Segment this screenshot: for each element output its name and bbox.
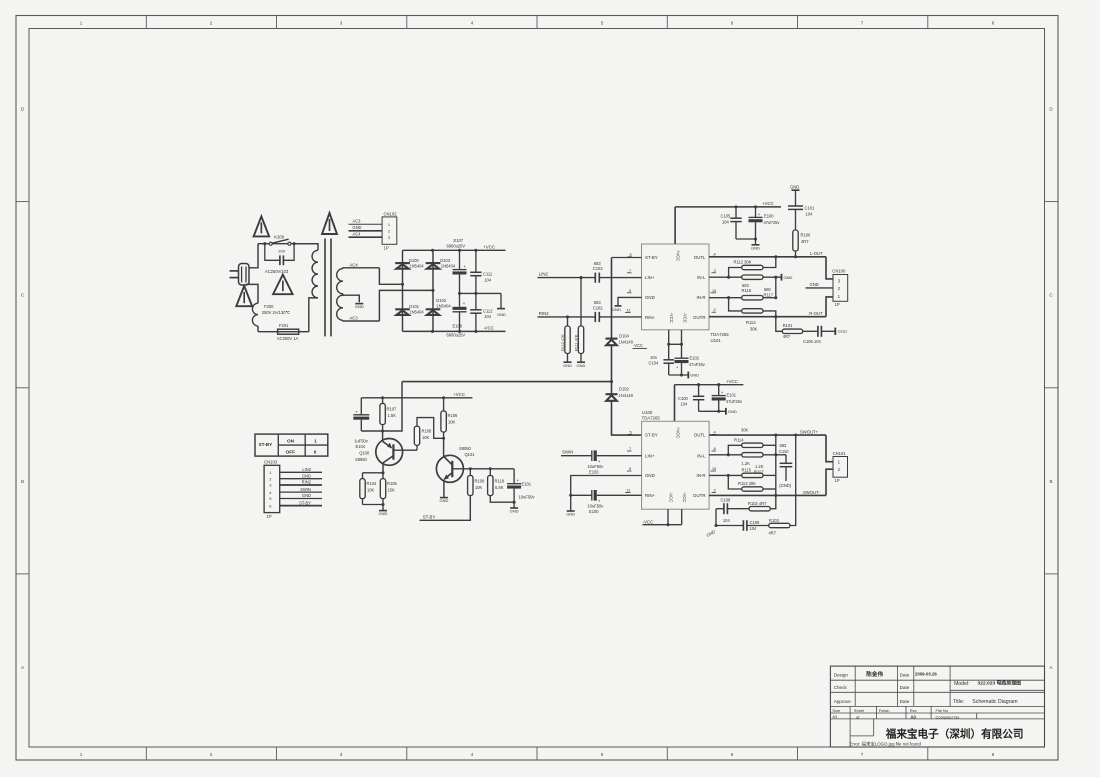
- svg-text:D: D: [1049, 107, 1053, 112]
- svg-text:GND: GND: [379, 511, 388, 516]
- ground of Q101 emitter: [439, 498, 448, 504]
- warning triangle above transformer: [322, 213, 337, 234]
- svg-text:2: 2: [838, 467, 841, 472]
- svg-text:5: 5: [601, 752, 604, 757]
- resistor R109 10K: [420, 469, 486, 521]
- svg-text:1: 1: [314, 439, 317, 444]
- warning triangle mid: [273, 275, 293, 295]
- svg-text:5: 5: [630, 252, 632, 257]
- svg-text:F200: F200: [264, 304, 274, 309]
- svg-text:U101: U101: [711, 338, 722, 343]
- svg-text:9: 9: [629, 288, 631, 293]
- svg-text:S8550: S8550: [355, 457, 368, 462]
- svg-text:3: 3: [714, 268, 716, 273]
- svg-text:104: 104: [484, 277, 492, 282]
- wire C104 E102 to ground: [669, 372, 700, 379]
- svg-text:4: 4: [714, 429, 717, 434]
- transformer T1 core: [325, 239, 331, 337]
- svg-text:1.5K: 1.5K: [388, 413, 397, 418]
- svg-text:GND: GND: [784, 275, 793, 280]
- svg-text:5: 5: [601, 21, 604, 26]
- svg-text:GND: GND: [810, 282, 819, 287]
- svg-text:104: 104: [750, 526, 758, 531]
- svg-text:Design: Design: [834, 672, 849, 677]
- svg-text:47uF25v: 47uF25v: [726, 399, 743, 404]
- ground of C106: [835, 328, 847, 335]
- ground of U100 input: [566, 511, 575, 517]
- svg-text:SWIN: SWIN: [300, 487, 311, 492]
- wire U100 feedback column: [775, 435, 777, 495]
- resistor R103 4R7: [769, 435, 796, 535]
- wire standby +VCC rail: [361, 396, 472, 399]
- wire U101 +VCC feed: [675, 205, 781, 244]
- wire AC3 to bridge: [379, 289, 434, 321]
- wire plug to switch rail: [249, 244, 258, 268]
- wire C108 to ground: [714, 509, 717, 527]
- logo error note: [849, 741, 921, 748]
- svg-text:GND: GND: [690, 373, 699, 378]
- svg-text:D101: D101: [409, 304, 420, 309]
- svg-text:Date: Date: [900, 672, 910, 677]
- svg-text:+VCC: +VCC: [676, 427, 681, 438]
- svg-text:GND: GND: [751, 245, 760, 250]
- wire U101 gain tap column: [774, 277, 777, 299]
- svg-text:GND: GND: [497, 312, 506, 317]
- svg-text:ST-BY: ST-BY: [645, 255, 658, 260]
- resistor R116 series IN-L: [709, 275, 781, 293]
- capacitor E102 47uF25v: [675, 344, 706, 375]
- svg-text:10K: 10K: [422, 435, 430, 440]
- svg-text:ST-BY: ST-BY: [259, 442, 274, 447]
- svg-text:R117: R117: [754, 470, 764, 475]
- ground of Q100 load: [379, 511, 388, 517]
- company name 福来宝电子（深圳）有限公司: [885, 728, 1024, 741]
- net label -VCC: [483, 326, 494, 331]
- svg-text:15K: 15K: [388, 487, 396, 492]
- svg-text:Error: 福来宝LOGO.jpg file not fo: Error: 福来宝LOGO.jpg file not found: [849, 741, 921, 748]
- resistor R113b 30K: [727, 474, 776, 491]
- diode D103 1N5404: [426, 258, 456, 269]
- svg-text:4R7: 4R7: [801, 239, 809, 244]
- svg-text:GND: GND: [302, 493, 311, 498]
- resistor R104 10K: [360, 479, 377, 499]
- svg-text:C110: C110: [779, 449, 789, 454]
- svg-text:10: 10: [712, 466, 717, 471]
- capacitor E101a 47uF25v: [712, 385, 743, 412]
- svg-text:IN-L: IN-L: [697, 275, 706, 280]
- wire plug to fuse: [246, 284, 258, 303]
- svg-text:2009-03.26: 2009-03.26: [915, 671, 937, 676]
- svg-text:AC3: AC3: [352, 218, 361, 223]
- svg-text:F201: F201: [279, 323, 289, 328]
- svg-text:250V 2A/130℃: 250V 2A/130℃: [262, 310, 291, 315]
- resistor R114 30K: [727, 428, 776, 457]
- wire D104 to standby node: [610, 345, 613, 383]
- wire SWOUT- to CN101 pin2: [826, 469, 833, 495]
- ground of filter bus: [497, 293, 506, 317]
- transformer T1 secondary upper: [337, 262, 380, 293]
- wire mains top rail: [258, 243, 318, 245]
- svg-text:E100: E100: [589, 509, 599, 514]
- diode D102b 1N4148: [606, 382, 634, 401]
- net label +VCC top: [762, 201, 774, 206]
- svg-text:104: 104: [806, 211, 814, 216]
- capacitor C104 104: [649, 344, 674, 375]
- diode D100 1N5404: [395, 258, 424, 269]
- svg-text:陈金伟: 陈金伟: [866, 670, 883, 678]
- svg-text:K200: K200: [274, 235, 284, 240]
- svg-text:LIN+: LIN+: [645, 453, 655, 458]
- svg-text:GND: GND: [355, 304, 364, 309]
- svg-text:1: 1: [838, 294, 841, 299]
- svg-text:+VCC: +VCC: [676, 250, 681, 261]
- svg-text:-VCC: -VCC: [669, 313, 674, 323]
- svg-text:104: 104: [722, 219, 730, 224]
- svg-text:-VCC: -VCC: [633, 343, 643, 348]
- svg-text:SWOUT-: SWOUT-: [803, 490, 820, 495]
- wire bridge middle column: [432, 250, 434, 331]
- svg-text:7: 7: [629, 268, 631, 273]
- wire U101 -VCC pins: [667, 330, 683, 346]
- svg-text:OUTR: OUTR: [693, 493, 705, 498]
- svg-text:2: 2: [269, 476, 272, 481]
- svg-text:1N5404: 1N5404: [436, 303, 451, 308]
- svg-text:R113: R113: [746, 320, 756, 325]
- resistor R100 4R7: [793, 230, 811, 257]
- capacitor C110 683: [776, 443, 793, 488]
- svg-text:IN-L: IN-L: [697, 453, 706, 458]
- svg-text:+: +: [355, 409, 358, 414]
- svg-text:+VCC: +VCC: [726, 379, 738, 384]
- svg-text:1N5404: 1N5404: [409, 309, 424, 314]
- svg-text:7: 7: [629, 446, 631, 451]
- svg-text:3: 3: [340, 752, 343, 757]
- AC plug P1: [230, 264, 250, 286]
- svg-text:2: 2: [838, 286, 841, 291]
- connector CN100: [832, 268, 847, 307]
- svg-text:2: 2: [210, 752, 213, 757]
- svg-text:GND: GND: [838, 329, 847, 334]
- capacitor C101 104: [788, 190, 815, 230]
- capacitor E103 10uF50v: [587, 450, 604, 474]
- svg-text:CN101: CN101: [833, 451, 847, 456]
- svg-text:C102: C102: [593, 305, 604, 310]
- capacitor E104 1uF50v: [353, 398, 369, 449]
- frame row letters A-D: [21, 107, 1054, 671]
- svg-text:+VCC: +VCC: [483, 244, 495, 249]
- svg-text:Rev: Rev: [910, 708, 917, 713]
- svg-text:8: 8: [714, 446, 716, 451]
- wire standby node to transistor circuit: [402, 381, 612, 383]
- svg-text:C101: C101: [805, 206, 816, 211]
- svg-text:RIN+: RIN+: [645, 315, 656, 320]
- svg-text:E103: E103: [589, 470, 599, 475]
- fuse F201: [258, 323, 299, 341]
- svg-text:3: 3: [838, 278, 841, 283]
- wire AC4 to CN102 pin3: [349, 231, 383, 237]
- svg-text:LIN2: LIN2: [302, 467, 311, 472]
- svg-text:1N5404: 1N5404: [409, 263, 424, 268]
- svg-text:Computer No: Computer No: [936, 714, 961, 719]
- svg-text:680: 680: [764, 287, 772, 292]
- svg-text:3: 3: [388, 235, 390, 240]
- svg-text:6: 6: [269, 503, 272, 508]
- net label LIN2: [539, 272, 549, 277]
- wire C103 to U101 pin7: [599, 277, 641, 279]
- svg-text:11: 11: [627, 488, 631, 493]
- svg-text:1: 1: [388, 222, 390, 227]
- svg-text:R113 30K: R113 30K: [738, 481, 756, 486]
- svg-text:R111 47K: R111 47K: [575, 334, 579, 351]
- svg-text:+VCC: +VCC: [762, 201, 774, 206]
- svg-text:LIN2: LIN2: [539, 272, 549, 277]
- svg-text:+VCC: +VCC: [453, 392, 465, 397]
- svg-text:TDA7265: TDA7265: [711, 332, 730, 337]
- svg-text:GND: GND: [728, 409, 737, 414]
- svg-text:OUTR: OUTR: [693, 315, 705, 320]
- warning triangle near switch: [254, 216, 270, 236]
- capacitor C109 104: [716, 520, 769, 531]
- svg-text:OUTL: OUTL: [694, 255, 706, 260]
- resistor R106 10K: [441, 398, 458, 439]
- svg-text:GND: GND: [510, 509, 519, 514]
- svg-text:1.2K: 1.2K: [742, 461, 751, 466]
- svg-text:Sheet: Sheet: [854, 708, 865, 713]
- op-amp U101 TDA7265 body: [642, 244, 730, 343]
- svg-text:C105: C105: [721, 214, 732, 219]
- svg-text:10K: 10K: [367, 487, 375, 492]
- svg-text:9: 9: [629, 466, 631, 471]
- capacitor C102 683: [593, 300, 604, 322]
- frame row tick marks: [16, 202, 1058, 574]
- warning triangle below plug: [236, 286, 252, 306]
- svg-text:CN103: CN103: [264, 460, 278, 465]
- svg-text:D104: D104: [619, 333, 630, 338]
- net label +VCC standby: [453, 392, 465, 397]
- svg-text:AC4: AC4: [352, 231, 361, 236]
- svg-text:D: D: [21, 107, 25, 112]
- svg-text:2: 2: [210, 21, 213, 26]
- svg-text:U100: U100: [642, 410, 653, 415]
- svg-text:-VCC: -VCC: [682, 492, 687, 502]
- capacitor E108 6800u25V: [447, 293, 467, 337]
- wire SWOUT+ to CN101 pin1: [826, 435, 833, 462]
- svg-text:4: 4: [714, 251, 717, 256]
- svg-text:104: 104: [484, 314, 492, 319]
- wire OUTR SWOUT-: [709, 490, 826, 497]
- wire OUTL L-OUT: [709, 251, 826, 258]
- wire U100 decoupling ground: [699, 408, 737, 415]
- svg-text:GND: GND: [612, 307, 621, 312]
- wire standby drive down: [361, 382, 402, 433]
- svg-text:R106: R106: [448, 413, 459, 418]
- svg-text:C111: C111: [483, 272, 493, 277]
- svg-text:8: 8: [992, 21, 995, 26]
- svg-text:CN102: CN102: [384, 211, 398, 216]
- wire U100 -VCC pins: [643, 509, 682, 526]
- svg-text:C104: C104: [649, 361, 660, 366]
- svg-text:R109: R109: [475, 478, 486, 483]
- thermal fuse F200: [252, 303, 290, 332]
- svg-text:1P: 1P: [267, 514, 272, 519]
- capacitor C105 104: [721, 207, 742, 239]
- svg-text:4: 4: [471, 752, 474, 757]
- capacitor CX1 200 across switch: [265, 244, 294, 275]
- svg-text:R101: R101: [783, 323, 794, 328]
- svg-text:3: 3: [269, 483, 272, 488]
- svg-text:IN-R: IN-R: [696, 295, 705, 300]
- capacitor C108 104: [716, 495, 749, 522]
- svg-text:R103: R103: [769, 518, 780, 523]
- svg-text:A3: A3: [832, 714, 838, 719]
- capacitor E101 10uF50v: [507, 469, 535, 502]
- ground of R111: [577, 362, 586, 368]
- svg-text:4R7: 4R7: [783, 334, 791, 339]
- capacitor C106 104: [803, 326, 835, 344]
- svg-text:Q100: Q100: [359, 451, 370, 456]
- svg-text:+: +: [517, 478, 520, 483]
- svg-text:ON: ON: [287, 439, 295, 444]
- transistor Q100 S8550: [355, 431, 403, 474]
- svg-text:(GND): (GND): [779, 483, 791, 488]
- svg-text:GND: GND: [302, 473, 311, 478]
- svg-text:RIN2: RIN2: [539, 311, 550, 316]
- svg-text:IN-R: IN-R: [696, 473, 705, 478]
- svg-text:6.8K: 6.8K: [495, 485, 504, 490]
- svg-text:GND: GND: [352, 225, 361, 230]
- connector CN101: [833, 451, 848, 483]
- svg-text:Date: Date: [900, 699, 910, 704]
- zobel GND top: [790, 185, 800, 191]
- svg-text:ST-BY: ST-BY: [423, 515, 436, 520]
- svg-text:AC3: AC3: [350, 315, 359, 320]
- svg-text:6: 6: [731, 752, 734, 757]
- svg-text:R115: R115: [742, 467, 752, 472]
- svg-text:1N4148: 1N4148: [619, 340, 634, 345]
- svg-text:E108: E108: [453, 324, 463, 329]
- svg-text:10uF50v: 10uF50v: [587, 504, 604, 509]
- svg-text:+: +: [758, 212, 761, 217]
- svg-text:1: 1: [80, 21, 83, 26]
- svg-text:L-OUT: L-OUT: [810, 251, 823, 256]
- svg-text:47uF25v: 47uF25v: [689, 362, 706, 367]
- svg-text:683: 683: [780, 443, 788, 448]
- svg-text:Date: Date: [900, 685, 910, 690]
- svg-text:B: B: [1049, 479, 1052, 484]
- svg-text:6800u25V: 6800u25V: [447, 244, 466, 249]
- wire R-OUT to CN100 pin1: [826, 297, 833, 317]
- svg-text:R105: R105: [387, 481, 398, 486]
- svg-text:7: 7: [861, 21, 864, 26]
- svg-text:ST-BY: ST-BY: [645, 433, 658, 438]
- svg-text:+: +: [464, 264, 467, 269]
- svg-text:10K: 10K: [475, 485, 483, 490]
- svg-text:AC4: AC4: [350, 262, 359, 267]
- svg-text:RIN2: RIN2: [302, 480, 312, 485]
- svg-text:E101: E101: [522, 482, 532, 487]
- svg-text:GND: GND: [566, 512, 575, 517]
- svg-text:C103: C103: [593, 266, 604, 271]
- wire OUTL SWOUT+: [709, 429, 826, 436]
- svg-text:0: 0: [314, 450, 317, 455]
- svg-text:R100: R100: [801, 233, 812, 238]
- svg-text:E100: E100: [764, 214, 774, 219]
- svg-text:1: 1: [80, 752, 83, 757]
- svg-text:E101: E101: [727, 393, 737, 398]
- svg-text:A: A: [21, 665, 25, 670]
- wire Q100 collector to resistor pair: [363, 473, 384, 479]
- svg-text:OUTL: OUTL: [694, 433, 706, 438]
- svg-text:C109: C109: [750, 520, 761, 525]
- svg-text:R102 4R7: R102 4R7: [748, 501, 767, 506]
- net label +VCC at U100: [726, 379, 738, 384]
- svg-text:S8050: S8050: [459, 446, 472, 451]
- diode D101 1N5404: [395, 304, 424, 315]
- svg-text:LIN+: LIN+: [645, 275, 655, 280]
- svg-text:C: C: [21, 293, 25, 298]
- svg-text:C: C: [1049, 293, 1053, 298]
- ground tap of U101 gain network: [782, 274, 793, 281]
- svg-text:C108: C108: [721, 498, 732, 503]
- svg-text:10uF50v: 10uF50v: [587, 464, 604, 469]
- svg-text:SWIN: SWIN: [562, 449, 573, 454]
- svg-text:File No: File No: [936, 708, 949, 713]
- svg-text:Finish: Finish: [879, 708, 890, 713]
- svg-text:Model:: Model:: [954, 681, 970, 687]
- svg-text:1P: 1P: [384, 245, 389, 250]
- resistor R101 4R7: [776, 317, 803, 339]
- title block text fields: [832, 670, 1021, 719]
- svg-text:5: 5: [630, 429, 632, 434]
- svg-text:Title:: Title:: [953, 699, 964, 705]
- svg-text:Schematic Diagram: Schematic Diagram: [972, 699, 1017, 705]
- svg-text:6800u25V: 6800u25V: [447, 333, 466, 338]
- connector CN102: [382, 211, 397, 250]
- capacitor C112 104: [470, 293, 493, 331]
- resistor R111 47K: [575, 278, 584, 362]
- svg-text:10uF50v: 10uF50v: [519, 494, 536, 499]
- svg-text:8: 8: [992, 752, 995, 757]
- svg-text:R104: R104: [367, 481, 378, 486]
- capacitor E107 6800u25V: [447, 238, 467, 294]
- svg-text:1P: 1P: [835, 478, 840, 483]
- svg-text:104: 104: [723, 518, 731, 523]
- svg-text:GND: GND: [577, 363, 586, 368]
- svg-text:4: 4: [471, 21, 474, 26]
- frame column numbers 1-8: [80, 21, 995, 757]
- net label SWIN: [562, 449, 573, 454]
- svg-text:322.023 电路原理图: 322.023 电路原理图: [978, 679, 1022, 686]
- wire U100 GND pin9: [569, 476, 641, 511]
- svg-text:R-OUT: R-OUT: [809, 311, 823, 316]
- resistor R110 47K: [561, 317, 570, 362]
- wire RIN2 to C102: [538, 315, 596, 318]
- svg-text:TDA7265: TDA7265: [642, 416, 661, 421]
- svg-text:福来宝电子（深圳）有限公司: 福来宝电子（深圳）有限公司: [885, 728, 1024, 741]
- svg-text:3: 3: [340, 21, 343, 26]
- wire LIN2 to C103: [538, 276, 596, 279]
- resistor R107 1.5K: [380, 398, 397, 431]
- wire U100 +VCC rail: [675, 383, 744, 421]
- wire L-OUT to CN100 pin3: [826, 257, 833, 279]
- svg-text:2: 2: [714, 307, 716, 312]
- svg-text:R116: R116: [742, 288, 752, 293]
- wire E103 to U100 pin7: [597, 455, 642, 457]
- resistor R117b series IN-R: [709, 464, 776, 478]
- capacitor E100 47uF25v: [749, 207, 781, 239]
- net label RIN2: [539, 311, 550, 316]
- wire filter mid GND bus: [458, 292, 501, 295]
